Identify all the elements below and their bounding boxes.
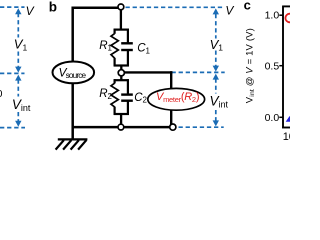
svg-text:c: c — [244, 0, 251, 12]
svg-text:0.0: 0.0 — [265, 112, 280, 124]
svg-text:b: b — [49, 0, 57, 15]
svg-text:0: 0 — [0, 88, 3, 100]
svg-text:0.5: 0.5 — [265, 60, 280, 72]
svg-text:10: 10 — [283, 131, 290, 143]
svg-text:1.0: 1.0 — [265, 10, 280, 22]
svg-text:V: V — [26, 4, 35, 18]
svg-text:V: V — [225, 4, 234, 18]
